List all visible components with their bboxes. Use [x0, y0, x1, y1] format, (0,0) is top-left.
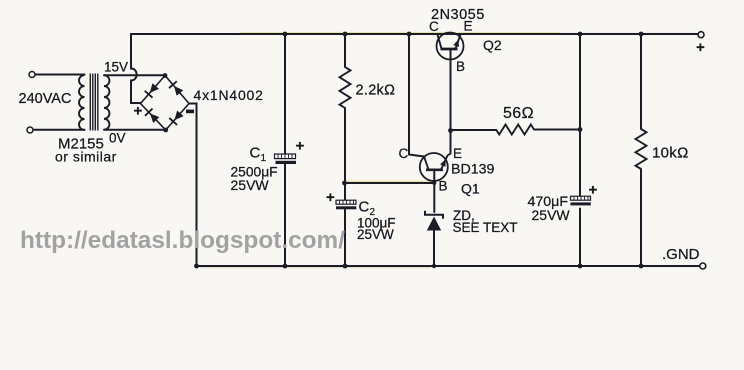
wire input bottom: [33, 129, 85, 131]
wire bridge minus to bottom rail: [189, 104, 197, 267]
wire 470uF branch lower: [579, 209, 581, 267]
node bottom rail 10k: [639, 264, 644, 269]
wire C2 bottom lead: [344, 210, 346, 267]
svg-text:+: +: [134, 103, 143, 120]
capacitor C1: [275, 154, 297, 164]
svg-text:C: C: [250, 145, 261, 162]
wire 15V secondary to bridge top: [104, 74, 165, 76]
terminal output plus: [698, 32, 704, 38]
wire node to 56ohm: [451, 129, 497, 131]
node top rail Q1C: [407, 32, 412, 37]
diode D3 bottom-left: [150, 113, 160, 123]
svg-text:2N3055: 2N3055: [431, 7, 485, 23]
svg-text:C: C: [429, 19, 439, 34]
wire 470uF branch upper: [579, 34, 581, 196]
svg-text:+: +: [326, 189, 335, 206]
wire Q1 collector branch from rail: [409, 34, 424, 157]
svg-text:1: 1: [261, 153, 267, 164]
wire input top: [35, 74, 85, 76]
terminal GND: [700, 263, 706, 269]
svg-text:B: B: [439, 179, 448, 194]
resistor 56: [496, 125, 534, 135]
node bottom rail C1: [283, 264, 288, 269]
wire C1 branch upper: [284, 34, 286, 153]
node Q1 base ref: [432, 181, 436, 185]
node bottom rail left: [194, 264, 199, 269]
svg-text:Q1: Q1: [461, 181, 480, 197]
resistor 10k: [636, 129, 647, 169]
wire 56ohm to 580 riser: [534, 129, 580, 131]
node bridge top: [163, 73, 168, 78]
svg-text:+: +: [296, 138, 305, 155]
wire 2.2k top lead: [344, 34, 346, 67]
wire Q2 base to node: [450, 49, 452, 131]
node top rail 2.2k: [343, 32, 348, 37]
svg-text:25VW: 25VW: [231, 177, 270, 193]
label bridge minus: [186, 110, 194, 114]
wire bridge plus output riser with hop: [131, 34, 141, 103]
wire 2.2k bottom to C2: [344, 108, 346, 200]
resistor 2.2k: [340, 67, 351, 108]
svg-text:+: +: [696, 39, 705, 56]
wire 0V secondary to bridge bottom: [104, 129, 166, 131]
diode D4 bottom-right: [174, 111, 183, 121]
node Q2B Q1E: [448, 128, 453, 133]
svg-text:C: C: [399, 146, 409, 161]
wire bottom rail: [197, 265, 701, 267]
node ref C2: [342, 181, 347, 186]
node out rail 470uF: [578, 32, 583, 37]
node out rail 10k: [639, 32, 644, 37]
node top rail C1: [283, 32, 288, 37]
diode D1 top-left: [150, 83, 159, 93]
svg-text:25VW: 25VW: [357, 227, 394, 242]
svg-text:4x1N4002: 4x1N4002: [194, 87, 264, 103]
svg-text:B: B: [456, 59, 465, 74]
transistor Q1 BD139: [420, 153, 451, 181]
wire Q1 base to zener: [433, 171, 435, 213]
svg-text:E: E: [464, 19, 473, 34]
svg-text:Q2: Q2: [483, 37, 502, 53]
svg-text:+: +: [589, 182, 598, 199]
zener diode ZD: [425, 211, 443, 231]
svg-text:240VAC: 240VAC: [19, 91, 72, 107]
wire zener to bottom rail: [433, 231, 435, 267]
svg-text:56Ω: 56Ω: [503, 105, 534, 122]
svg-text:.GND: .GND: [662, 246, 700, 263]
wire reference node horizontal: [345, 182, 435, 184]
svg-text:15V: 15V: [104, 60, 128, 75]
bridge rectifier 4x1N4002: [141, 76, 190, 131]
wire 10k branch lower: [640, 169, 642, 266]
node bottom rail C2: [343, 264, 348, 269]
diode D2 top-right: [174, 86, 183, 96]
capacitor 470uF: [571, 196, 591, 205]
svg-text:BD139: BD139: [451, 162, 494, 178]
node 56 right: [578, 127, 583, 132]
wire 10k branch upper: [640, 34, 642, 129]
terminal input bottom: [27, 127, 33, 133]
node bridge bottom: [163, 128, 168, 133]
transistor Q2 2N3055: [437, 33, 464, 60]
svg-text:http://edatasl.blogspot.com/: http://edatasl.blogspot.com/: [20, 227, 345, 254]
node bottom rail ZD: [432, 264, 436, 268]
svg-text:SEE TEXT: SEE TEXT: [453, 220, 518, 235]
capacitor C2: [336, 200, 356, 209]
node bottom rail 470uF: [578, 264, 583, 269]
svg-text:E: E: [453, 146, 462, 161]
svg-text:10kΩ: 10kΩ: [652, 145, 689, 162]
terminal input top: [29, 72, 35, 78]
svg-text:25VW: 25VW: [532, 207, 571, 223]
wire top rail: [131, 33, 698, 35]
wire Q1 emitter riser: [450, 131, 452, 154]
svg-text:C: C: [359, 199, 370, 216]
svg-text:0V: 0V: [109, 131, 126, 146]
svg-text:or similar: or similar: [55, 149, 117, 165]
transformer T1 M2155: [79, 74, 109, 131]
wire C1 branch lower: [284, 164, 286, 266]
svg-text:2.2kΩ: 2.2kΩ: [356, 83, 396, 99]
